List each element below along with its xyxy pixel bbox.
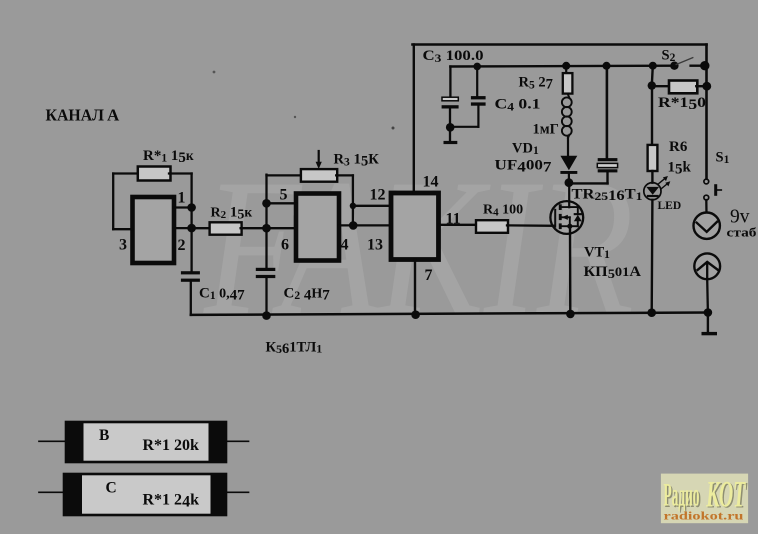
battery G1 9v (source circle, arrow down)	[694, 213, 720, 239]
speck	[213, 71, 216, 74]
op-amp U1.1 (Schmitt trigger gate)	[133, 197, 175, 263]
LED HL1	[644, 176, 670, 200]
wire (pin 12 input)	[353, 205, 391, 207]
node R6 branch / second rail junction	[649, 62, 657, 70]
svg-text:А: А	[107, 106, 120, 125]
node pin6 junction	[262, 224, 271, 233]
svg-text:КАНАЛ: КАНАЛ	[46, 106, 105, 125]
battery G2 (source circle, arrow up)	[694, 253, 720, 279]
wire (C1 bottom lead)	[190, 282, 192, 315]
node pin4/pin13 junction	[349, 221, 358, 230]
wire (pin 13 input)	[353, 224, 391, 226]
wire (VD1 to drain node)	[568, 174, 570, 183]
wire (R*1 right lead)	[169, 172, 192, 174]
svg-text:11: 11	[446, 210, 461, 227]
wire (left vertical net: R3 left / pin5 / pin6 / C2)	[265, 175, 267, 268]
wire (pin 11 output)	[439, 224, 478, 226]
wire (C2 bottom lead)	[265, 278, 267, 316]
wire (piezo top lead)	[606, 66, 609, 159]
transistor VT1 КП501А (MOSFET)	[550, 201, 583, 234]
capacitor C2	[256, 268, 275, 271]
wire (to ground right)	[707, 313, 709, 333]
svg-text:14: 14	[423, 174, 439, 191]
svg-text:1: 1	[178, 190, 186, 207]
svg-text:6: 6	[281, 237, 289, 254]
node R*150 right junction	[702, 82, 711, 91]
resistor R6	[648, 145, 658, 171]
wire (branch down to R*150 node)	[652, 66, 653, 86]
radiokot.ru logo	[661, 474, 748, 524]
wire (piezo bottom lead)	[606, 172, 608, 183]
wire (C4 top lead)	[476, 66, 478, 96]
svg-text:R*150: R*150	[658, 95, 706, 113]
wire (R6 upper lead)	[651, 86, 653, 146]
wire (LED to rail)	[651, 200, 654, 313]
svg-text:2: 2	[178, 237, 186, 254]
svg-text:4: 4	[341, 236, 349, 253]
op-amp U1.3 (Schmitt trigger gate)	[391, 193, 439, 260]
wire (second rail)	[450, 64, 674, 67]
ground (below C3)	[444, 141, 458, 144]
svg-text:стаб: стаб	[727, 225, 758, 240]
node pin7/rail junction	[411, 310, 420, 319]
svg-text:R*1 20k: R*1 20k	[143, 437, 200, 454]
svg-text:R3 15К: R3 15К	[334, 152, 380, 170]
svg-text:LED: LED	[658, 200, 682, 212]
svg-text:1мГ: 1мГ	[533, 121, 559, 137]
resistor R*150	[669, 81, 697, 94]
svg-text:C4 0.1: C4 0.1	[495, 96, 541, 113]
wire (R2 right lead to pin6 node, continues to gate U1.2 pin 6)	[241, 227, 296, 229]
svg-text:radiokot.ru: radiokot.ru	[664, 509, 744, 523]
wire (coil to VD1)	[567, 138, 569, 156]
svg-text:КП501А: КП501А	[584, 264, 642, 281]
wire (battery to rail)	[706, 279, 709, 312]
switch S1 (push button)	[704, 179, 709, 184]
wire (drain node into MOSFET)	[568, 183, 570, 208]
wire (R6 to LED)	[651, 171, 653, 183]
svg-text:TR2516T1: TR2516T1	[572, 186, 643, 204]
capacitor C1	[181, 271, 200, 274]
node R*150 left junction	[648, 81, 656, 89]
inductor L1 1мГ (coil)	[562, 94, 572, 138]
wire (right vertical from top rail down to S1)	[705, 45, 708, 180]
wire (pin 1 output)	[174, 206, 192, 208]
wire (top supply rail)	[413, 43, 707, 46]
svg-text:R*1 24k: R*1 24k	[143, 492, 200, 511]
svg-text:C: C	[106, 480, 117, 497]
trimmer arrow of R3	[318, 151, 320, 164]
node R5/second rail junction	[562, 62, 570, 70]
resistor C (R*1 24k block)	[39, 474, 249, 515]
capacitor C3 (electrolytic, hollow plate)	[442, 97, 458, 101]
speck	[392, 127, 395, 130]
wire (R*150 right lead)	[696, 85, 707, 87]
wire (R*150 left lead)	[652, 85, 670, 87]
op-amp U1.2 (Schmitt trigger gate)	[296, 194, 339, 261]
wire (MOSFET source to rail)	[569, 226, 572, 314]
node piezo/second rail junction	[603, 62, 611, 70]
svg-text:15k: 15k	[668, 160, 692, 178]
wire (R5 top lead)	[565, 66, 567, 74]
wire (pin 14 Vdd vertical)	[413, 45, 415, 194]
svg-text:R5 27: R5 27	[519, 75, 553, 93]
switch S2	[670, 61, 678, 69]
node C2/rail junction	[262, 311, 271, 320]
transducer TR2516T1 (piezo)	[598, 158, 618, 161]
wire (piezo to drain node)	[571, 182, 608, 184]
wire (pin 7 ground vertical)	[414, 260, 416, 315]
resistor R2	[210, 222, 242, 234]
svg-text:12: 12	[370, 186, 386, 203]
ground (right)	[702, 332, 718, 335]
svg-text:13: 13	[367, 237, 383, 254]
svg-text:C3 100.0: C3 100.0	[423, 48, 484, 65]
wire (pin 2)	[174, 227, 192, 229]
resistor B (R*1 20k block)	[39, 422, 249, 462]
wire (ground bottom rail)	[191, 313, 708, 315]
node pin1 junction	[187, 203, 196, 212]
speck	[294, 116, 296, 118]
node C4/second rail junction	[473, 63, 481, 71]
svg-text:К561ТЛ1: К561ТЛ1	[266, 339, 323, 357]
wire (C3 bottom lead)	[449, 109, 451, 141]
node source/rail junction	[566, 310, 575, 319]
diode VD1 UF4007	[560, 156, 577, 171]
svg-text:3: 3	[119, 237, 127, 254]
resistor R5	[563, 73, 573, 94]
wire (pin 4 output)	[339, 224, 353, 226]
node pin2 junction	[187, 224, 196, 233]
svg-text:5: 5	[280, 187, 288, 204]
svg-text:UF4007: UF4007	[495, 158, 552, 176]
svg-text:C2 4Н7: C2 4Н7	[284, 286, 331, 304]
wire (R3 right lead)	[336, 174, 353, 176]
wire (S1 to battery)	[705, 200, 708, 228]
wire (C1 top lead)	[190, 228, 192, 271]
svg-text:R4 100: R4 100	[483, 203, 523, 219]
node pin12 corner	[350, 203, 356, 209]
wire (R*1 left lead to loop)	[113, 172, 139, 174]
wire (R3 right vertical down to pin4 node)	[352, 175, 354, 225]
wire (R4 right lead to MOSFET gate)	[507, 224, 555, 227]
resistor R4	[476, 220, 508, 233]
wire (pin 5 input)	[267, 202, 297, 204]
wire (C4 bottom link)	[450, 126, 478, 128]
node battery/rail junction	[704, 308, 713, 317]
svg-text:7: 7	[425, 267, 433, 284]
node C3/C4 junction	[446, 123, 455, 132]
svg-text:C1 0,47: C1 0,47	[199, 286, 245, 304]
wire (vertical from R*1 to pin1/pin2 node)	[190, 174, 192, 229]
svg-text:R6: R6	[669, 139, 688, 155]
node pin5 junction	[262, 199, 271, 208]
node drain junction	[565, 178, 574, 187]
wire (C4 bottom vertical)	[477, 106, 479, 127]
node LED/rail junction	[647, 308, 656, 317]
wire (pin 3 input)	[113, 228, 132, 230]
wire (feedback loop vertical)	[112, 174, 114, 230]
capacitor C4	[471, 96, 486, 99]
resistor R*1	[138, 167, 171, 181]
wire (pin2 node to R2)	[192, 227, 211, 229]
wire (C3 top lead)	[449, 67, 451, 98]
svg-text:B: B	[99, 427, 109, 444]
wire (R3 left lead)	[267, 174, 303, 176]
resistor R3 (trimmer)	[301, 169, 337, 182]
